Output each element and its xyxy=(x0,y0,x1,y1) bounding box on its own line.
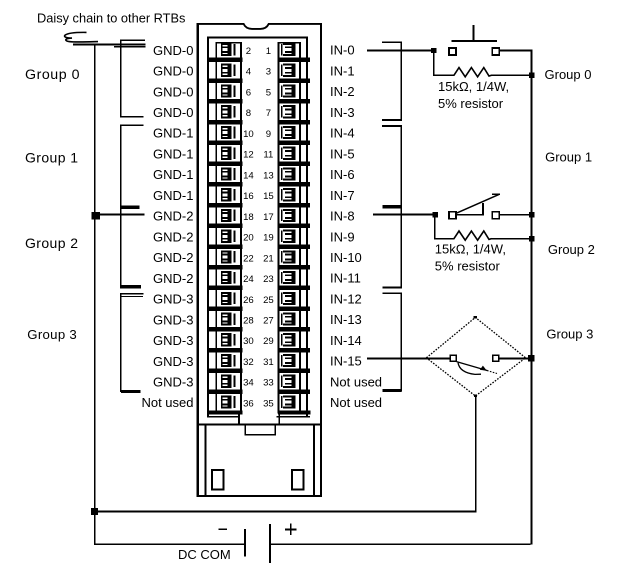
svg-text:IN-1: IN-1 xyxy=(330,63,355,78)
wire: daisy chain to GND commons xyxy=(73,44,146,48)
svg-text:GND-3: GND-3 xyxy=(153,354,193,369)
terminal screw 10 xyxy=(221,126,236,139)
toggle switch S2 (N.O.) xyxy=(449,193,500,219)
svg-text:19: 19 xyxy=(263,233,274,244)
svg-text:GND-2: GND-2 xyxy=(153,229,193,244)
terminal screw 22 xyxy=(221,250,236,263)
battery positive plate xyxy=(269,524,271,563)
pin number 22 xyxy=(243,253,254,264)
terminal screw 11 xyxy=(281,147,296,160)
terminal separator bar 14 xyxy=(207,327,310,332)
label: IN-6 (terminal 13) xyxy=(330,167,355,182)
svg-text:2: 2 xyxy=(246,46,251,57)
proximity sensor body (diamond) xyxy=(426,316,525,397)
svg-text:35: 35 xyxy=(263,398,274,409)
label: GND-0 (terminal 8) xyxy=(153,105,193,120)
bracket: Group 3 GND commons xyxy=(121,294,144,393)
terminal screw 25 xyxy=(281,292,296,305)
svg-text:GND-3: GND-3 xyxy=(153,374,193,389)
svg-text:34: 34 xyxy=(243,378,254,389)
terminal screw 9 xyxy=(281,126,296,139)
svg-text:9: 9 xyxy=(266,129,271,140)
svg-text:Daisy chain to other RTBs: Daisy chain to other RTBs xyxy=(37,11,185,26)
wire: +V bus (right vertical) xyxy=(531,50,533,545)
junction: sensor / +V bus xyxy=(528,355,534,362)
wire: battery negative to GND bus xyxy=(94,543,244,545)
svg-text:GND-3: GND-3 xyxy=(153,333,193,348)
label: GND-2 (terminal 18) xyxy=(153,209,193,224)
terminal separator bar 11 xyxy=(207,265,310,270)
label: - polarity xyxy=(219,528,228,530)
label: GND-2 (terminal 22) xyxy=(153,250,193,265)
label: IN-13 (terminal 27) xyxy=(330,312,362,327)
pin number 26 xyxy=(243,295,254,306)
svg-text:25: 25 xyxy=(263,295,274,306)
terminal screw 2 xyxy=(221,43,236,56)
label: Not used (terminal 36) xyxy=(141,395,193,410)
svg-text:14: 14 xyxy=(243,170,254,181)
bracket: Group 0 GND commons xyxy=(121,40,145,117)
resistor R2 leads xyxy=(434,215,531,240)
svg-text:IN-2: IN-2 xyxy=(330,84,355,99)
svg-text:29: 29 xyxy=(263,336,274,347)
svg-text:GND-2: GND-2 xyxy=(153,209,193,224)
label: Group 0 (left) xyxy=(25,67,80,83)
pin number 33 xyxy=(263,378,274,389)
pin number 1 xyxy=(266,46,271,57)
terminal separator bar 13 xyxy=(207,306,310,311)
label: GND-0 (terminal 6) xyxy=(153,84,193,99)
svg-text:IN-4: IN-4 xyxy=(330,126,355,141)
junction: GND bus / sensor common return xyxy=(91,508,98,515)
label: IN-3 (terminal 7) xyxy=(330,105,355,120)
svg-text:10: 10 xyxy=(243,129,254,140)
terminal separator bar 7 xyxy=(207,182,310,187)
terminal block RTB: left mounting foot xyxy=(212,470,223,490)
junction: R2 / +V bus xyxy=(529,236,534,241)
svg-text:DC COM: DC COM xyxy=(178,547,231,562)
terminal screw 35 xyxy=(281,395,296,408)
svg-text:Not used: Not used xyxy=(330,374,382,389)
label: GND-1 (terminal 12) xyxy=(153,146,193,161)
junction: IN-0 / resistor R1 xyxy=(431,48,436,53)
terminal screw 29 xyxy=(281,333,296,346)
terminal screw 26 xyxy=(221,292,236,305)
terminal screw 16 xyxy=(221,188,236,201)
svg-text:GND-0: GND-0 xyxy=(153,64,193,79)
terminal screw 19 xyxy=(281,230,296,243)
wire: IN-15 to proximity sensor xyxy=(367,358,426,360)
daisy-chain wire curl xyxy=(65,32,98,42)
pin number 34 xyxy=(243,378,254,389)
svg-text:IN-14: IN-14 xyxy=(330,333,362,348)
terminal separator bar 18 (bottom) xyxy=(207,410,310,414)
label: IN-9 (terminal 19) xyxy=(330,229,355,244)
pin number 21 xyxy=(263,253,274,264)
svg-text:15kΩ, 1/4W,: 15kΩ, 1/4W, xyxy=(435,242,506,257)
terminal strip: right column rails xyxy=(278,42,301,414)
pushbutton switch S1 (N.O.) xyxy=(449,25,499,55)
label: Group 3 (left) xyxy=(27,327,77,342)
label: Not used (terminal 35) xyxy=(330,395,382,410)
svg-text:21: 21 xyxy=(263,253,274,264)
label: IN-10 (terminal 21) xyxy=(330,250,362,265)
label: Group 2 (left) xyxy=(25,235,78,251)
pin number 5 xyxy=(266,87,271,98)
label: GND-0 (terminal 2) xyxy=(153,43,193,58)
svg-text:5% resistor: 5% resistor xyxy=(438,96,504,111)
terminal separator bar 8 xyxy=(207,203,310,208)
svg-text:GND-1: GND-1 xyxy=(153,188,193,203)
label: IN-4 (terminal 9) xyxy=(330,126,355,141)
svg-text:27: 27 xyxy=(263,315,274,326)
terminal screw 33 xyxy=(281,375,296,388)
terminal block RTB: lower body xyxy=(197,414,322,495)
svg-text:Group 0: Group 0 xyxy=(25,67,80,83)
terminal separator bar 16 xyxy=(207,369,310,374)
label: GND-3 (terminal 30) xyxy=(153,333,193,348)
proximity sensor contact (internal switch) xyxy=(426,355,530,374)
svg-text:IN-0: IN-0 xyxy=(330,43,355,58)
svg-text:11: 11 xyxy=(263,150,273,161)
svg-text:4: 4 xyxy=(246,67,252,78)
label: + polarity xyxy=(285,524,297,536)
terminal screw 13 xyxy=(281,167,296,180)
pin number 19 xyxy=(263,233,274,244)
terminal screw 27 xyxy=(281,312,296,325)
label: GND-1 (terminal 16) xyxy=(153,188,193,203)
terminal strip: left column rails xyxy=(216,42,243,414)
svg-text:IN-8: IN-8 xyxy=(330,209,355,224)
terminal screw 30 xyxy=(221,333,236,346)
junction: S2 / +V bus xyxy=(529,212,534,217)
label: GND-2 (terminal 20) xyxy=(153,229,193,244)
svg-text:31: 31 xyxy=(263,357,274,368)
label: GND-3 (terminal 32) xyxy=(153,354,193,369)
svg-text:28: 28 xyxy=(243,315,254,326)
terminal separator bar 9 xyxy=(207,224,310,229)
terminal block RTB: keying tab xyxy=(244,425,276,435)
pin number 30 xyxy=(243,336,254,347)
svg-text:Group 2: Group 2 xyxy=(548,242,595,257)
pin number 16 xyxy=(243,191,254,202)
pin number 32 xyxy=(243,357,254,368)
pin number 14 xyxy=(243,170,254,181)
svg-text:33: 33 xyxy=(263,378,274,389)
svg-text:IN-6: IN-6 xyxy=(330,167,355,182)
svg-text:24: 24 xyxy=(243,274,254,285)
svg-text:Group 0: Group 0 xyxy=(545,67,592,82)
svg-text:1: 1 xyxy=(266,46,271,57)
wire: IN-8 to toggle switch xyxy=(373,214,434,216)
svg-text:GND-3: GND-3 xyxy=(153,312,193,327)
terminal screw 1 xyxy=(281,43,296,56)
terminal separator bar 4 xyxy=(207,120,310,125)
svg-text:Group 1: Group 1 xyxy=(25,150,78,166)
svg-text:Not used: Not used xyxy=(141,395,193,410)
label: GND-0 (terminal 4) xyxy=(153,64,193,79)
terminal separator bar 3 xyxy=(207,99,310,104)
terminal screw 5 xyxy=(281,84,296,97)
pin number 10 xyxy=(243,129,254,140)
pin number 29 xyxy=(263,336,274,347)
bracket: Group 1 / Group 2 inputs xyxy=(382,126,401,288)
label: GND-1 (terminal 14) xyxy=(153,167,193,182)
svg-text:16: 16 xyxy=(243,191,254,202)
svg-text:IN-5: IN-5 xyxy=(330,146,355,161)
label: IN-12 (terminal 25) xyxy=(330,291,362,306)
bracket: Group 0 inputs xyxy=(382,42,401,120)
svg-text:12: 12 xyxy=(243,150,254,161)
label: Group 3 (right) xyxy=(546,326,593,341)
pin number 23 xyxy=(263,274,274,285)
svg-text:5% resistor: 5% resistor xyxy=(435,259,501,274)
svg-text:18: 18 xyxy=(243,212,254,223)
svg-text:IN-12: IN-12 xyxy=(330,291,362,306)
pin number 12 xyxy=(243,150,254,161)
label: Group 1 (right) xyxy=(545,149,592,164)
terminal screw 12 xyxy=(221,147,236,160)
label: GND-3 (terminal 26) xyxy=(153,292,193,307)
terminal screw 28 xyxy=(221,312,236,325)
svg-text:IN-15: IN-15 xyxy=(330,354,362,369)
label: IN-5 (terminal 11) xyxy=(330,146,355,161)
wire: battery positive to +V bus xyxy=(271,543,531,545)
label: IN-2 (terminal 5) xyxy=(330,84,355,99)
svg-text:IN-3: IN-3 xyxy=(330,105,355,120)
svg-text:5: 5 xyxy=(266,87,271,98)
pin number 35 xyxy=(263,398,274,409)
pin number 27 xyxy=(263,315,274,326)
terminal screw 4 xyxy=(221,64,236,77)
svg-text:GND-2: GND-2 xyxy=(153,271,193,286)
pin number 17 xyxy=(263,212,274,223)
terminal screw 14 xyxy=(221,167,236,180)
svg-text:GND-1: GND-1 xyxy=(153,126,193,141)
pin number 8 xyxy=(246,108,251,119)
resistor R1 leads xyxy=(433,50,531,76)
pin number 31 xyxy=(263,357,274,368)
label: IN-8 (terminal 17) xyxy=(330,209,355,224)
label: DC COM xyxy=(178,547,231,562)
pin number 13 xyxy=(263,170,274,181)
svg-text:15: 15 xyxy=(263,191,274,202)
terminal screw 3 xyxy=(281,64,296,77)
label: GND-2 (terminal 24) xyxy=(153,271,193,286)
pin number 7 xyxy=(266,108,271,119)
terminal screw 36 xyxy=(221,395,236,408)
pin number 4 xyxy=(246,67,252,78)
terminal screw 7 xyxy=(281,105,296,118)
label: R1 value xyxy=(438,79,509,111)
label: GND-1 (terminal 10) xyxy=(153,126,193,141)
label: Group 0 (right) xyxy=(545,67,592,82)
terminal screw 24 xyxy=(221,271,236,284)
terminal block RTB: outer housing xyxy=(197,23,322,497)
label: IN-7 (terminal 15) xyxy=(330,188,355,203)
pin number 15 xyxy=(263,191,274,202)
pin number 6 xyxy=(246,87,251,98)
pin number 20 xyxy=(243,233,254,244)
terminal screw 32 xyxy=(221,354,236,367)
junction: GND bus / GND-2 tap xyxy=(91,212,100,220)
wire: S2 to +V bus xyxy=(499,214,530,216)
svg-text:GND-0: GND-0 xyxy=(153,105,193,120)
battery negative plate xyxy=(244,529,246,556)
terminal separator bar 10 xyxy=(207,244,310,249)
svg-text:22: 22 xyxy=(243,253,254,264)
pin number 28 xyxy=(243,315,254,326)
terminal block RTB: inner housing xyxy=(207,36,310,417)
terminal screw 21 xyxy=(281,250,296,263)
wire: GND bus (left vertical, to DC COM -) xyxy=(94,44,96,545)
terminal screw 23 xyxy=(281,271,296,284)
svg-text:Group 1: Group 1 xyxy=(545,149,592,164)
svg-text:IN-10: IN-10 xyxy=(330,250,362,265)
wire: GND-2 tap xyxy=(95,214,144,216)
terminal screw 18 xyxy=(221,209,236,222)
pin number 25 xyxy=(263,295,274,306)
terminal separator bar 17 xyxy=(207,389,310,394)
svg-text:26: 26 xyxy=(243,295,254,306)
svg-text:30: 30 xyxy=(243,336,254,347)
terminal separator bar 12 xyxy=(207,286,310,291)
pin number 3 xyxy=(266,67,271,78)
label: daisy chain note xyxy=(37,11,185,26)
resistor R1 (15 kOhm) xyxy=(454,68,492,77)
terminal screw 15 xyxy=(281,188,296,201)
terminal separator bar 1 xyxy=(207,58,310,63)
svg-text:GND-2: GND-2 xyxy=(153,250,193,265)
svg-text:23: 23 xyxy=(263,274,274,285)
bracket: Group 1 / Group 2 GND commons xyxy=(120,125,143,288)
terminal screw 31 xyxy=(281,354,296,367)
terminal screw 6 xyxy=(221,84,236,97)
svg-text:17: 17 xyxy=(263,212,274,223)
label: IN-11 (terminal 23) xyxy=(330,271,361,286)
svg-text:15kΩ, 1/4W,: 15kΩ, 1/4W, xyxy=(438,79,509,94)
pin number 2 xyxy=(246,46,251,57)
svg-text:GND-1: GND-1 xyxy=(153,146,193,161)
pin number 11 xyxy=(263,150,273,161)
pin number 24 xyxy=(243,274,254,285)
svg-text:GND-3: GND-3 xyxy=(153,292,193,307)
svg-text:GND-0: GND-0 xyxy=(153,84,193,99)
svg-text:IN-11: IN-11 xyxy=(330,271,361,286)
svg-text:8: 8 xyxy=(246,108,251,119)
terminal block RTB: right mounting foot xyxy=(292,470,304,490)
wire: S1 to +V bus xyxy=(499,50,530,52)
svg-text:Group 2: Group 2 xyxy=(25,235,78,251)
svg-text:13: 13 xyxy=(263,170,274,181)
svg-text:Group 3: Group 3 xyxy=(27,327,77,342)
terminal separator bar 5 xyxy=(207,141,310,146)
svg-text:3: 3 xyxy=(266,67,271,78)
svg-text:20: 20 xyxy=(243,233,254,244)
svg-text:IN-7: IN-7 xyxy=(330,188,355,203)
svg-text:7: 7 xyxy=(266,108,271,119)
label: GND-3 (terminal 34) xyxy=(153,374,193,389)
svg-text:GND-1: GND-1 xyxy=(153,167,193,182)
terminal screw 17 xyxy=(281,209,296,222)
svg-text:32: 32 xyxy=(243,357,254,368)
junction: R1 / +V bus xyxy=(529,73,534,78)
junction: IN-8 / resistor R2 xyxy=(432,212,437,217)
terminal screw 34 xyxy=(221,375,236,388)
wire: IN-0 to pushbutton xyxy=(367,50,434,52)
pin number 9 xyxy=(266,129,271,140)
label: Group 1 (left) xyxy=(25,150,78,166)
resistor R2 (15 kOhm) xyxy=(454,231,492,240)
label: Not used (terminal 33) xyxy=(330,374,382,389)
svg-text:6: 6 xyxy=(246,87,251,98)
svg-text:GND-0: GND-0 xyxy=(153,43,193,58)
bracket: Group 3 inputs xyxy=(383,293,402,392)
label: R2 value xyxy=(435,242,506,274)
svg-text:36: 36 xyxy=(243,398,254,409)
terminal separator bar 15 xyxy=(207,348,310,353)
terminal screw 8 xyxy=(221,105,236,118)
label: IN-14 (terminal 29) xyxy=(330,333,362,348)
pin number 36 xyxy=(243,398,254,409)
label: IN-15 (terminal 31) xyxy=(330,354,362,369)
terminal separator bar 6 xyxy=(207,161,310,166)
svg-text:Group 3: Group 3 xyxy=(546,326,593,341)
label: GND-3 (terminal 28) xyxy=(153,312,193,327)
label: Group 2 (right) xyxy=(548,242,595,257)
label: IN-1 (terminal 3) xyxy=(330,63,355,78)
wire: sensor common return (to proximity sensor) xyxy=(94,396,477,513)
svg-text:IN-9: IN-9 xyxy=(330,229,355,244)
pin number 18 xyxy=(243,212,254,223)
svg-text:IN-13: IN-13 xyxy=(330,312,362,327)
svg-text:Not used: Not used xyxy=(330,395,382,410)
terminal screw 20 xyxy=(221,230,236,243)
label: IN-0 (terminal 1) xyxy=(330,43,355,58)
terminal separator bar 2 xyxy=(207,78,310,83)
